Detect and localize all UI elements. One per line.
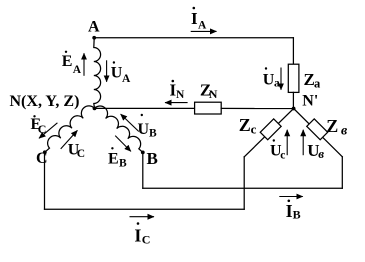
label impedance Zc xyxy=(239,115,257,137)
label voltage Uc xyxy=(270,139,285,161)
label voltage Ua xyxy=(263,67,280,89)
wire: phase A top horizontal xyxy=(94,37,293,39)
svg-text:в: в xyxy=(341,124,348,139)
svg-text:U: U xyxy=(263,72,275,89)
svg-text:C: C xyxy=(38,122,47,136)
arrow voltage Uv up xyxy=(302,130,304,155)
label voltage UC xyxy=(68,142,85,160)
svg-text:E: E xyxy=(108,151,119,168)
node C junction dot xyxy=(43,150,47,154)
wire: C terminal down xyxy=(44,152,46,209)
node B junction dot xyxy=(141,151,145,155)
label impedance Za xyxy=(304,70,322,90)
svg-text:c: c xyxy=(280,150,285,162)
svg-text:B: B xyxy=(149,127,157,139)
impedance ZN box xyxy=(195,102,222,114)
wire: neutral right segment ZN to N' xyxy=(221,107,293,109)
wire: phase C branch vertical up to Zc xyxy=(243,157,245,209)
svg-text:A: A xyxy=(122,73,131,85)
label voltage Uv xyxy=(307,141,324,161)
arrow emf EB down-right xyxy=(115,136,131,152)
wire: phase C bottom horizontal xyxy=(45,208,245,210)
arrow voltage UB up-left xyxy=(121,114,139,131)
svg-text:N: N xyxy=(209,87,218,101)
node A junction dot xyxy=(92,36,96,40)
winding EA phase A source coil xyxy=(94,38,101,109)
impedance Za box xyxy=(288,64,299,92)
arrow current IA xyxy=(191,30,217,32)
label impedance ZN xyxy=(200,81,218,102)
wire: diagonal N' to Zc branch xyxy=(244,109,293,157)
winding EB phase B source coil xyxy=(95,106,143,152)
svg-text:A: A xyxy=(73,64,82,76)
label impedance Zv xyxy=(326,116,348,138)
svg-text:Z: Z xyxy=(239,115,251,135)
wire: Za to node N' xyxy=(292,92,294,108)
wire: right vertical Zb branch down xyxy=(341,157,343,188)
svg-text:в: в xyxy=(318,146,324,161)
wire: phase B bottom horizontal xyxy=(143,187,342,189)
svg-text:N': N' xyxy=(302,92,318,109)
svg-text:Z: Z xyxy=(326,116,338,136)
arrow voltage Uc up xyxy=(286,130,288,155)
arrow voltage UC up-right xyxy=(61,130,78,149)
winding EC phase C source coil xyxy=(45,106,95,152)
svg-text:a: a xyxy=(274,78,280,90)
wire: right vertical from top to Za xyxy=(292,38,294,64)
arrow voltage Ua down xyxy=(280,68,282,90)
svg-text:B: B xyxy=(147,149,158,168)
wire: diagonal N' to Zb branch xyxy=(294,109,343,157)
arrow emf EA up xyxy=(83,53,85,76)
arrow emf EC down-left xyxy=(39,123,57,139)
svg-text:B: B xyxy=(293,208,301,222)
svg-text:B: B xyxy=(119,158,127,170)
svg-text:I: I xyxy=(134,226,141,246)
svg-text:C: C xyxy=(36,150,48,167)
label current IA xyxy=(191,7,207,32)
arrow voltage UA down xyxy=(106,60,108,82)
svg-text:C: C xyxy=(77,148,85,160)
svg-text:C: C xyxy=(142,232,151,246)
impedance Zv box (rotated) xyxy=(307,119,328,140)
label current IB xyxy=(286,200,301,222)
arrow current IC xyxy=(130,216,155,218)
svg-text:A: A xyxy=(88,19,100,36)
label emf EB xyxy=(108,147,127,169)
label current IC xyxy=(134,222,150,246)
svg-text:c: c xyxy=(251,122,257,137)
node N junction dot xyxy=(93,107,97,111)
wire: neutral left segment N to ZN xyxy=(95,107,195,109)
svg-text:E: E xyxy=(62,53,73,70)
label emf EA xyxy=(62,51,82,76)
svg-text:I: I xyxy=(286,201,293,221)
svg-text:I: I xyxy=(191,9,198,28)
svg-text:U: U xyxy=(138,121,150,138)
arrow current IN xyxy=(165,102,188,104)
svg-text:N: N xyxy=(176,89,185,101)
svg-text:a: a xyxy=(314,76,321,90)
node N' junction dot xyxy=(292,107,296,111)
svg-text:U: U xyxy=(111,65,123,82)
impedance Zc box (rotated) xyxy=(260,119,281,140)
label current IN xyxy=(170,80,186,101)
label emf EC xyxy=(31,115,47,136)
svg-text:N(X, Y, Z): N(X, Y, Z) xyxy=(10,93,80,110)
wire: B terminal down xyxy=(142,152,144,188)
arrow current IB xyxy=(279,196,303,198)
label voltage UB xyxy=(138,114,158,140)
label voltage UA xyxy=(111,61,131,85)
svg-text:A: A xyxy=(198,19,207,31)
